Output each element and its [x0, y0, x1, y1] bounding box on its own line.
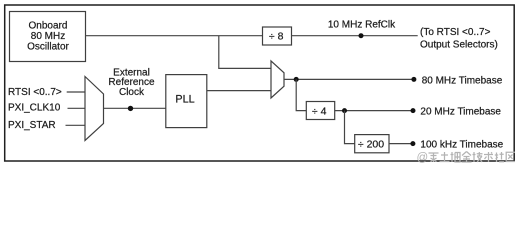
svg-text:Onboard: Onboard: [29, 21, 68, 32]
svg-text:Oscillator: Oscillator: [27, 41, 69, 52]
label: 20 MHz Timebase: [420, 107, 501, 118]
svg-text:PXI_CLK10: PXI_CLK10: [8, 103, 61, 114]
wire: branch down to timebase mux: [219, 36, 271, 69]
svg-text:20 MHz Timebase: 20 MHz Timebase: [420, 107, 501, 118]
svg-text:÷ 4: ÷ 4: [312, 105, 327, 117]
label: External Reference Clock: [108, 67, 155, 98]
wire: RTSI input: [67, 91, 85, 93]
label: PXI_CLK10: [8, 103, 61, 114]
divider U2 (divide by 8): [263, 27, 292, 45]
wire: mux output to PLL: [104, 107, 166, 109]
svg-text:Output Selectors): Output Selectors): [420, 40, 498, 51]
mux U4: timebase selector: [271, 61, 284, 98]
PLL U3: [166, 75, 207, 128]
wire: timebase mux output to 80 MHz bullet: [284, 78, 414, 80]
wire: PXI_STAR input: [66, 124, 86, 126]
wire: divider to RefClk output: [292, 35, 418, 37]
svg-text:÷ 8: ÷ 8: [269, 31, 284, 43]
wire: divide-by-200 output to 100 kHz bullet: [389, 143, 413, 145]
svg-text:(To RTSI <0..7>: (To RTSI <0..7>: [420, 27, 491, 38]
label: 100 kHz Timebase: [420, 140, 503, 151]
wire: branch down to divide-by-200: [345, 111, 355, 144]
node: external reference clock junction: [128, 106, 133, 111]
svg-text:80 MHz Timebase: 80 MHz Timebase: [422, 76, 503, 87]
svg-text:PLL: PLL: [175, 94, 194, 106]
node: 80 MHz junction: [294, 77, 299, 82]
svg-text:÷ 200: ÷ 200: [358, 138, 384, 150]
label: RTSI <0..7>: [8, 87, 62, 98]
oscillator box (Onboard 80 MHz Oscillator): [10, 12, 86, 62]
wire: PLL output to timebase mux: [207, 90, 271, 92]
wire: divide-by-4 output to 20 MHz bullet: [335, 110, 413, 112]
svg-text:Clock: Clock: [119, 87, 145, 98]
svg-text:80 MHz: 80 MHz: [31, 31, 65, 42]
svg-text:10 MHz RefClk: 10 MHz RefClk: [328, 20, 396, 31]
svg-text:@: @: [417, 152, 429, 164]
label: 80 MHz Timebase: [422, 76, 503, 87]
wire: oscillator output to divider: [86, 35, 263, 37]
svg-text:100 kHz Timebase: 100 kHz Timebase: [420, 140, 503, 151]
divider U5 (divide by 4): [306, 102, 334, 120]
mux U1: reference clock input selector: [85, 77, 104, 141]
wire: PXI_CLK10 input: [68, 107, 86, 109]
svg-text:PXI_STAR: PXI_STAR: [8, 120, 56, 131]
divider U6 (divide by 200): [355, 135, 389, 153]
watermark (drawn pseudo-glyphs, light gray): [417, 152, 516, 165]
node: 10 MHz RefClk junction: [359, 33, 364, 38]
node: 20 MHz Timebase terminal: [411, 108, 416, 113]
label: 10 MHz RefClk: [328, 20, 396, 31]
node: 100 kHz Timebase terminal: [410, 141, 415, 146]
node: 20 MHz junction: [342, 108, 347, 113]
wire: branch down to divide-by-4: [296, 79, 306, 110]
svg-text:RTSI <0..7>: RTSI <0..7>: [8, 87, 62, 98]
node: 80 MHz Timebase terminal: [411, 77, 416, 82]
label: PXI_STAR: [8, 120, 56, 131]
label: (To RTSI <0..7> Output Selectors): [420, 27, 498, 50]
